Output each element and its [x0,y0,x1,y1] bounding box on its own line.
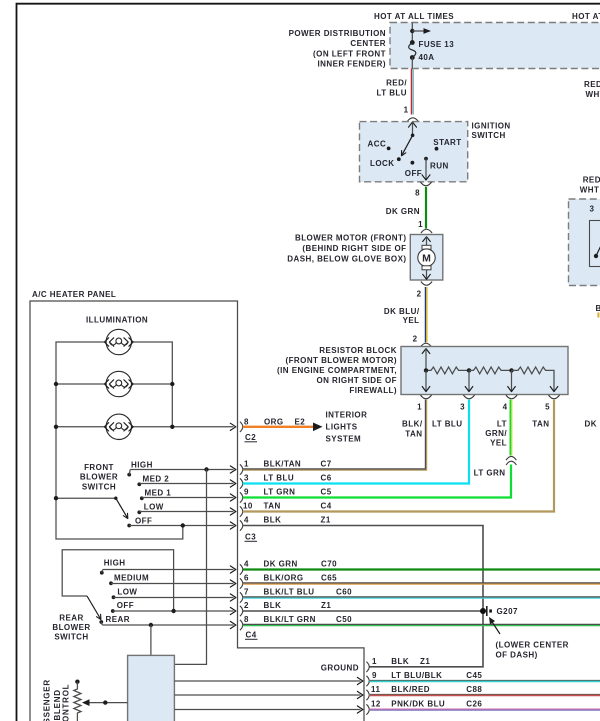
resistor R3 [512,367,555,391]
svg-text:MED 1: MED 1 [145,488,172,497]
svg-text:LT GRN: LT GRN [474,469,506,478]
ground box internal wires with arrows [175,677,363,713]
svg-text:LOW: LOW [144,502,164,511]
label LT BLU (pin3) [432,420,463,429]
pin 8 ignition switch [415,189,420,198]
ignition switch box [360,122,468,182]
svg-text:ACC: ACC [368,139,387,148]
svg-text:DK GRN: DK GRN [264,560,298,569]
pin 9 ground row LT BLU/BLK C45 [372,671,482,680]
svg-text:HOT AT ALL TIMES: HOT AT ALL TIMES [572,12,600,21]
label POWER DISTRIBUTION CENTER [289,29,386,69]
svg-text:A/C HEATER PANEL: A/C HEATER PANEL [32,290,116,299]
label C4 underlined [245,631,258,640]
svg-text:M: M [422,252,431,264]
svg-text:LT: LT [497,420,507,429]
label OFF (front) [135,516,152,525]
svg-text:(LOWER CENTER: (LOWER CENTER [496,641,569,650]
wire front MED 2 row [139,480,236,487]
svg-text:9: 9 [244,488,249,497]
contact OFF front [127,524,131,528]
svg-text:BLK/TAN: BLK/TAN [264,460,302,469]
svg-text:TAN: TAN [405,430,422,439]
label DK (cut off wire label) [585,420,597,429]
svg-text:LIGHTS: LIGHTS [326,423,358,432]
label HOT AT ALL TIMES [374,12,454,21]
wire C6 LT BLU [243,400,469,484]
svg-text:3: 3 [590,205,595,214]
svg-text:2: 2 [413,335,418,344]
wire C50 BLK/LT GRN [243,624,600,625]
svg-text:C4: C4 [246,631,257,640]
label ILLUMINATION [86,316,148,325]
svg-text:GROUND: GROUND [321,663,359,672]
svg-text:TAN: TAN [532,420,549,429]
svg-text:5: 5 [545,403,550,412]
ignition switch entry arrow and lever [402,122,417,156]
svg-text:RED/: RED/ [583,176,600,185]
rear switch lever [87,596,101,620]
label C3 underlined [245,533,258,542]
svg-text:INTERIOR: INTERIOR [326,411,368,420]
node resistor junction A [424,368,428,372]
wire PDC internal feed [411,23,413,43]
wire front MED 1 row [142,494,236,501]
wire lamp row 2 [56,383,172,385]
wire rear OFF row [113,607,236,614]
svg-text:BLEND: BLEND [53,689,62,720]
svg-text:1: 1 [372,657,377,666]
inline connector LT GRN [506,456,516,465]
pin 3 relay [590,205,595,214]
svg-text:C3: C3 [245,533,256,542]
label BLOWER MOTOR (FRONT) [287,234,406,264]
svg-text:9: 9 [372,671,377,680]
svg-text:SYSTEM: SYSTEM [326,435,362,444]
resistor block output drops with arrows [422,370,558,391]
svg-text:BLK/LT BLU: BLK/LT BLU [264,588,315,597]
motor M symbol [418,237,435,280]
svg-text:DK GRN: DK GRN [386,207,420,216]
label RED/ WHT (upper, cut) [584,80,600,99]
wire front OFF row [129,522,236,529]
node lamp bus junctions [54,382,175,429]
connector C2 pin 8 [240,422,243,432]
svg-text:CONTROL: CONTROL [62,684,71,721]
wire C7 BLK/TAN [243,400,427,471]
label OFF (rear) [117,601,134,610]
svg-text:RED/: RED/ [584,80,600,89]
label A/C HEATER PANEL [32,290,116,299]
svg-text:E2: E2 [295,417,306,426]
pin 6 C4 row BLK/ORG C65 [244,574,337,583]
svg-text:RED/: RED/ [386,79,407,88]
svg-text:8: 8 [244,615,249,624]
relay contact [594,245,600,259]
label HOT AT ALL TIMES (right, cut off) [572,12,600,21]
svg-text:SWITCH: SWITCH [54,633,88,642]
svg-text:BLOWER: BLOWER [80,473,118,482]
wire lamp left bus [56,342,183,539]
connector at ignition switch pin 1 [407,118,418,122]
pin 1 ignition switch [404,106,409,115]
pin 8 C2 [244,417,249,426]
wire DK GRN [425,187,427,229]
wire LT GRN/YEL [510,400,512,456]
label RESISTOR BLOCK [277,346,397,395]
svg-text:C60: C60 [336,588,352,597]
relay inner switch box [590,221,600,267]
pin 2 resistor block [413,335,418,344]
resistor block box [401,347,568,395]
pin 9 C3 row LT GRN C5 [244,488,332,497]
label ORG E2 [264,417,305,426]
label PASSENGER (rotated) [43,679,52,721]
label ACC [368,139,387,148]
svg-text:1: 1 [418,220,423,229]
svg-text:GRN/: GRN/ [485,429,507,438]
svg-text:ON RIGHT SIDE OF: ON RIGHT SIDE OF [316,376,397,385]
connector at resistor pin 5 [548,395,559,399]
svg-text:LT BLU: LT BLU [432,420,463,429]
label MED 1 [145,488,172,497]
connector C3 arcs [240,464,243,530]
svg-text:B: B [596,304,600,313]
label START [433,138,461,147]
svg-text:MEDIUM: MEDIUM [114,574,149,583]
node HIGH tap junction [204,467,208,471]
label IGNITION SWITCH [472,122,511,141]
svg-text:LT BLU: LT BLU [264,474,295,483]
svg-text:OFF: OFF [117,601,134,610]
label RUN [430,162,449,171]
svg-text:LOW: LOW [117,588,137,597]
label MED 2 [143,474,170,483]
svg-text:OFF: OFF [135,516,152,525]
resistor R2 [469,367,512,374]
label LOW (front) [144,502,164,511]
wire C4 TAN [243,400,554,512]
label BRN (cut) and wire stub below relay [596,304,600,318]
svg-text:RESISTOR BLOCK: RESISTOR BLOCK [319,346,397,355]
potentiometer wiper arrow [82,699,128,706]
blower motor box [410,235,443,281]
pin 4 resistor [503,403,508,412]
label CONTROL (rotated) [62,684,71,721]
svg-text:C88: C88 [466,685,482,694]
wire RUN output with arrow [422,159,430,180]
label BLK/ TAN [402,420,423,439]
rear switch common frame [62,550,173,611]
label LOW (rear) [117,588,137,597]
svg-text:10: 10 [243,502,253,511]
wire C26 PNK/DK BLU [370,709,600,710]
svg-text:IGNITION: IGNITION [472,122,511,131]
svg-text:7: 7 [244,588,249,597]
label TAN (pin5) [532,420,549,429]
svg-text:LOCK: LOCK [370,159,394,168]
connector at resistor pin 4 [506,395,517,399]
relay box (cut off at right edge) [569,199,600,286]
svg-text:DK BLU/: DK BLU/ [384,307,420,316]
svg-text:TAN: TAN [264,502,281,511]
svg-text:REAR: REAR [59,613,83,622]
blend door actuator box [128,655,175,721]
wire C88 BLK/RED [370,694,600,695]
svg-text:2: 2 [417,290,422,299]
svg-text:(BEHIND RIGHT SIDE OF: (BEHIND RIGHT SIDE OF [302,244,406,253]
svg-text:START: START [433,138,461,147]
label G207 [497,607,518,616]
potentiometer blend control [74,680,81,721]
label RED/ LT BLU [376,79,407,98]
node PDC bus junction [410,29,414,33]
pin 3 C3 row LT BLU C6 [244,474,332,483]
pin 3 resistor [460,403,465,412]
label HIGH (rear) [104,559,126,568]
svg-text:1: 1 [404,106,409,115]
svg-text:40A: 40A [419,53,435,62]
contact MEDIUM [109,581,113,585]
svg-text:C4: C4 [321,502,332,511]
svg-text:REAR: REAR [106,615,130,624]
svg-text:INNER FENDER): INNER FENDER) [317,60,386,69]
wire ORG E2 [243,426,314,428]
svg-text:G207: G207 [497,607,518,616]
A/C heater panel box [30,301,364,721]
lamp L1 illumination [104,329,133,354]
connector at blower motor pin 2 [421,282,432,286]
power distribution center box [390,23,600,69]
arrow lamp row exit [230,423,236,430]
wire C5 LT GRN [243,465,511,498]
wire rear REAR row [102,621,236,628]
svg-text:(FRONT BLOWER MOTOR): (FRONT BLOWER MOTOR) [285,356,397,365]
connector at resistor pin 1 [420,395,431,399]
contact HIGH rear [100,570,104,575]
label C2 underlined [245,433,258,442]
svg-text:PNK/DK BLU: PNK/DK BLU [391,699,445,708]
wire RED/LT BLU [412,69,414,115]
node OFF loop junction [181,523,185,527]
svg-text:4: 4 [503,403,508,412]
svg-text:1: 1 [244,460,249,469]
node rear OFF junction [171,609,175,613]
contact MED 1 [140,496,144,500]
svg-text:1: 1 [417,403,422,412]
svg-text:Z1: Z1 [321,601,331,610]
svg-text:C70: C70 [321,560,337,569]
svg-text:3: 3 [244,474,249,483]
ignition switch contacts ACC LOCK OFF RUN START [387,147,439,165]
node REAR tap junction [149,623,153,627]
label HIGH (front) [131,460,153,469]
svg-text:11: 11 [371,685,380,694]
svg-text:ILLUMINATION: ILLUMINATION [86,316,148,325]
pin 4 C3 row BLK Z1 [244,516,331,525]
svg-text:PASSENGER: PASSENGER [43,679,52,721]
resistor block entry arrow [422,349,430,371]
connector at blower motor pin 1 [421,229,432,233]
pin 7 C4 row BLK/LT BLU C60 [244,588,352,597]
svg-text:6: 6 [244,574,249,583]
pin 8 C4 row BLK/LT GRN C50 [244,615,352,624]
front switch common wire and lever [54,496,128,519]
svg-text:POWER DISTRIBUTION: POWER DISTRIBUTION [289,29,386,38]
svg-text:Z1: Z1 [420,657,430,666]
svg-text:8: 8 [244,417,249,426]
vertical tap from REAR to blend door box [150,625,152,655]
ground G207 [480,606,492,616]
svg-text:BLK/ORG: BLK/ORG [264,574,304,583]
svg-text:MED 2: MED 2 [143,474,170,483]
svg-text:FIREWALL): FIREWALL) [349,386,397,395]
label (LOWER CENTER OF DASH) [496,641,569,660]
svg-text:(ON LEFT FRONT: (ON LEFT FRONT [313,50,386,59]
wire Z1 BLK front [243,526,483,667]
pin 10 C3 row TAN C4 [243,502,332,511]
svg-text:C45: C45 [466,671,482,680]
svg-text:C2: C2 [245,433,256,442]
contact HIGH front [127,470,131,477]
pin 2 blower motor [417,290,422,299]
svg-text:4: 4 [244,560,249,569]
svg-text:DK: DK [585,420,597,429]
wire lamp right bus [132,342,172,427]
label MEDIUM [114,574,149,583]
connector at ignition switch pin 8 [420,182,431,186]
wire feed arrow to other circuits [412,28,431,34]
svg-text:HIGH: HIGH [131,460,153,469]
svg-text:C6: C6 [321,474,332,483]
lamp L3 illumination [104,414,133,439]
svg-text:WHT: WHT [580,186,600,195]
pin 1 ground row BLK Z1 [372,657,430,666]
pin 4 C4 row DK GRN C70 [244,560,337,569]
wire C65 BLK/ORG [243,583,600,584]
label FUSE 13 40A [419,40,455,62]
label REAR (contact) [106,615,130,624]
contact LOW rear [112,595,116,599]
svg-text:RUN: RUN [430,162,449,171]
svg-text:3: 3 [460,403,465,412]
svg-text:C26: C26 [466,699,482,708]
wire C45 LT BLU/BLK [370,680,600,681]
svg-text:BLK: BLK [391,657,409,666]
svg-text:LT BLU: LT BLU [376,89,407,98]
svg-text:BLK: BLK [264,516,282,525]
pin 12 ground row PNK/DK BLU C26 [371,699,482,708]
svg-text:4: 4 [244,516,249,525]
svg-text:BLOWER MOTOR (FRONT): BLOWER MOTOR (FRONT) [295,234,407,243]
label INTERIOR LIGHTS SYSTEM [326,411,368,444]
resistor R1 [426,367,469,374]
svg-text:OF DASH): OF DASH) [496,651,538,660]
vertical tap from HIGH to blend door box [175,470,207,665]
svg-text:Z1: Z1 [321,516,331,525]
svg-text:C65: C65 [321,574,337,583]
svg-text:LT BLU/BLK: LT BLU/BLK [391,671,442,680]
label DK GRN [386,207,420,216]
pin 5 resistor [545,403,550,412]
connector C4 arcs [240,564,243,630]
svg-text:FRONT: FRONT [84,463,114,472]
arrow to G207 [489,617,500,634]
label FRONT BLOWER SWITCH [80,463,118,491]
svg-text:C5: C5 [321,488,332,497]
wire rear LOW row [114,594,236,601]
node resistor junction B [467,368,471,372]
svg-text:(IN ENGINE COMPARTMENT,: (IN ENGINE COMPARTMENT, [277,366,397,375]
wire rear HIGH row [103,566,236,573]
contact MED 2 [137,482,141,486]
label LOCK [370,159,394,168]
label DK BLU/ YEL [384,307,420,325]
contact REAR [99,620,103,625]
svg-text:FUSE 13: FUSE 13 [419,40,455,49]
svg-text:2: 2 [244,601,249,610]
svg-text:LT GRN: LT GRN [264,488,296,497]
lamp L2 illumination [104,371,133,396]
svg-text:BLK/LT GRN: BLK/LT GRN [264,615,316,624]
wire front LOW row [139,508,236,515]
wire lamp row 3 to connector [56,426,234,428]
pin 1 blower motor [418,220,423,229]
connector at resistor pin 3 [463,395,474,399]
svg-text:ORG: ORG [264,417,284,426]
svg-text:C7: C7 [321,460,332,469]
label RED/ WHT (lower, cut) [580,176,600,195]
svg-text:HIGH: HIGH [104,559,126,568]
svg-text:DASH, BELOW GLOVE BOX): DASH, BELOW GLOVE BOX) [287,255,406,264]
svg-text:12: 12 [371,699,381,708]
wire front HIGH row [130,466,236,473]
label OFF (ignition) [405,169,422,178]
svg-text:OFF: OFF [405,169,422,178]
wire Z1 BLK rear [243,610,483,612]
svg-text:SWITCH: SWITCH [82,482,116,491]
label BLEND (rotated) [53,689,62,720]
contact OFF rear [111,609,115,613]
svg-text:BLK: BLK [264,601,282,610]
svg-text:WHT: WHT [586,90,600,99]
fuse F13 (FUSE 13 40A) [409,40,416,68]
pin 11 ground row BLK/RED C88 [371,685,482,694]
svg-text:C50: C50 [336,615,352,624]
label GROUND [321,663,359,672]
svg-text:YEL: YEL [490,439,507,448]
svg-text:YEL: YEL [403,316,420,325]
label LT GRN [474,469,506,478]
contact LOW front [137,510,141,514]
ground connector arcs [366,662,369,715]
wire C60 BLK/LT BLU [243,597,600,598]
arrow to interior lights system [313,423,323,432]
connector at resistor block pin 2 [420,343,431,347]
pin 1 resistor [417,403,422,412]
label REAR BLOWER SWITCH [52,613,90,641]
wire rear MEDIUM row [111,580,236,587]
svg-text:BLK/: BLK/ [402,420,423,429]
node resistor junction C [509,368,513,372]
wire C70 DK GRN [243,568,600,570]
pin 1 C3 row BLK/TAN C7 [244,460,332,469]
svg-text:SWITCH: SWITCH [472,131,506,140]
svg-text:CENTER: CENTER [350,39,386,48]
svg-text:BLK/RED: BLK/RED [391,685,430,694]
svg-text:BLOWER: BLOWER [52,623,90,632]
svg-text:8: 8 [415,189,420,198]
